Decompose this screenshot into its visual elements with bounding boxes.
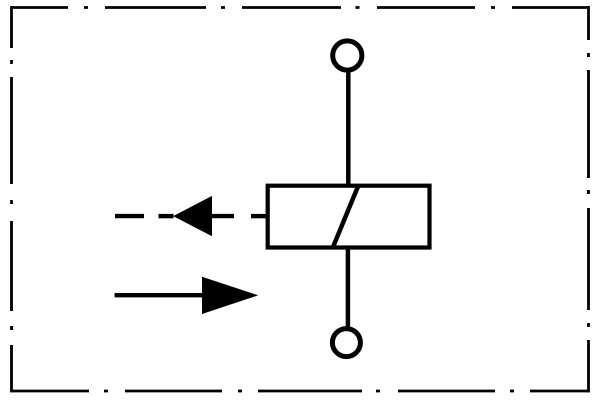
right side	[587, 6, 590, 392]
wire dash behind arrowhead	[211, 214, 234, 218]
bottom side	[11, 390, 589, 393]
wire dash touching box	[251, 214, 266, 218]
wire dash	[159, 214, 174, 218]
top side	[11, 6, 589, 9]
arrowhead of dashed arrow	[173, 196, 212, 236]
solid arrow (points right)	[115, 293, 205, 297]
wire (box to bottom terminal)	[346, 246, 351, 328]
left side	[10, 6, 13, 392]
wire dash	[115, 214, 144, 218]
component body box	[268, 186, 430, 248]
terminal circle (bottom)	[332, 329, 360, 357]
wire (top terminal to box)	[346, 72, 351, 186]
terminal circle (top)	[333, 41, 362, 70]
arrowhead of solid arrow	[202, 277, 258, 314]
dashed arrow (points left into box)	[115, 214, 266, 218]
diagonal stroke inside box	[332, 185, 359, 249]
